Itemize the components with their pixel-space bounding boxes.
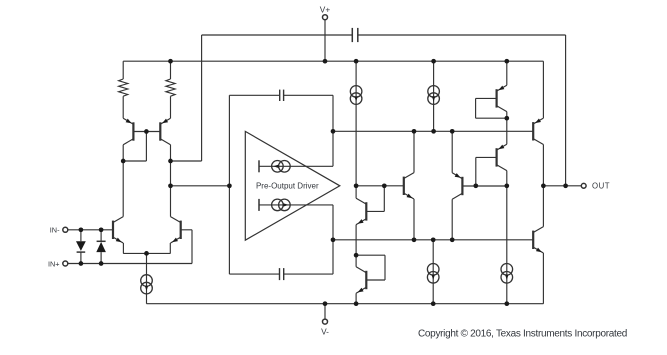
svg-text:IN-: IN- xyxy=(50,226,60,235)
svg-text:V-: V- xyxy=(321,326,329,336)
svg-text:Pre-Output Driver: Pre-Output Driver xyxy=(256,182,319,191)
svg-text:IN+: IN+ xyxy=(48,259,60,268)
svg-text:Copyright © 2016, Texas Instru: Copyright © 2016, Texas Instruments Inco… xyxy=(418,329,627,340)
svg-text:V+: V+ xyxy=(320,5,331,15)
svg-text:OUT: OUT xyxy=(592,182,610,191)
